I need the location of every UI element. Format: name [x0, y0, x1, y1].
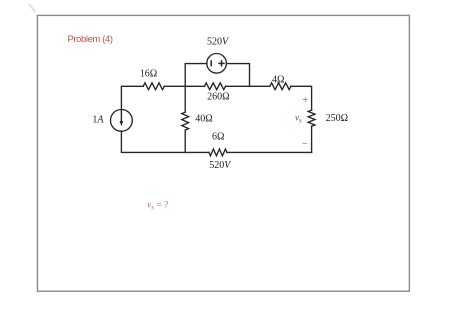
wire vsource right riser: [226, 64, 249, 87]
voltage source polarity marks inside circle: [211, 60, 225, 66]
voltage source V 520V circle: [207, 54, 227, 74]
svg-text:250Ω: 250Ω: [326, 113, 348, 124]
wire top middle segment: [164, 85, 204, 87]
wire top-right segment: [291, 86, 312, 110]
resistor R 250ohm vertical zigzag: [308, 110, 315, 126]
svg-text:260Ω: 260Ω: [207, 91, 229, 102]
svg-text:16Ω: 16Ω: [140, 69, 157, 80]
resistor R 4ohm zigzag: [270, 83, 291, 90]
wire top right-middle segment: [226, 85, 270, 87]
svg-text:6Ω: 6Ω: [212, 131, 224, 142]
current source I 1A circle: [111, 110, 133, 132]
current source 1A arrow: [120, 110, 124, 126]
svg-text:40Ω: 40Ω: [195, 114, 212, 125]
resistor R 260ohm zigzag: [204, 83, 225, 90]
resistor R 40ohm vertical zigzag: [182, 112, 189, 130]
svg-text:−: −: [302, 139, 308, 150]
svg-text:+: +: [302, 95, 308, 106]
wire right-bottom segment: [311, 126, 313, 152]
svg-text:Problem (4): Problem (4): [68, 33, 113, 44]
svg-text:4Ω: 4Ω: [272, 74, 284, 85]
resistor R 6ohm zigzag: [209, 149, 227, 156]
svg-text:1A: 1A: [92, 115, 104, 126]
wire middle branch upper: [184, 86, 186, 112]
resistor R 16ohm zigzag: [143, 83, 164, 90]
svg-text:520V: 520V: [209, 160, 232, 171]
wire middle branch lower: [184, 130, 186, 152]
svg-text:520V: 520V: [207, 37, 230, 48]
wire bottom-right segment: [227, 151, 312, 153]
wire vsource left riser: [185, 64, 207, 87]
svg-text:vs = ?: vs = ?: [147, 200, 168, 211]
wire bottom-left segment: [121, 131, 208, 152]
wire top-left segment: [121, 86, 143, 110]
